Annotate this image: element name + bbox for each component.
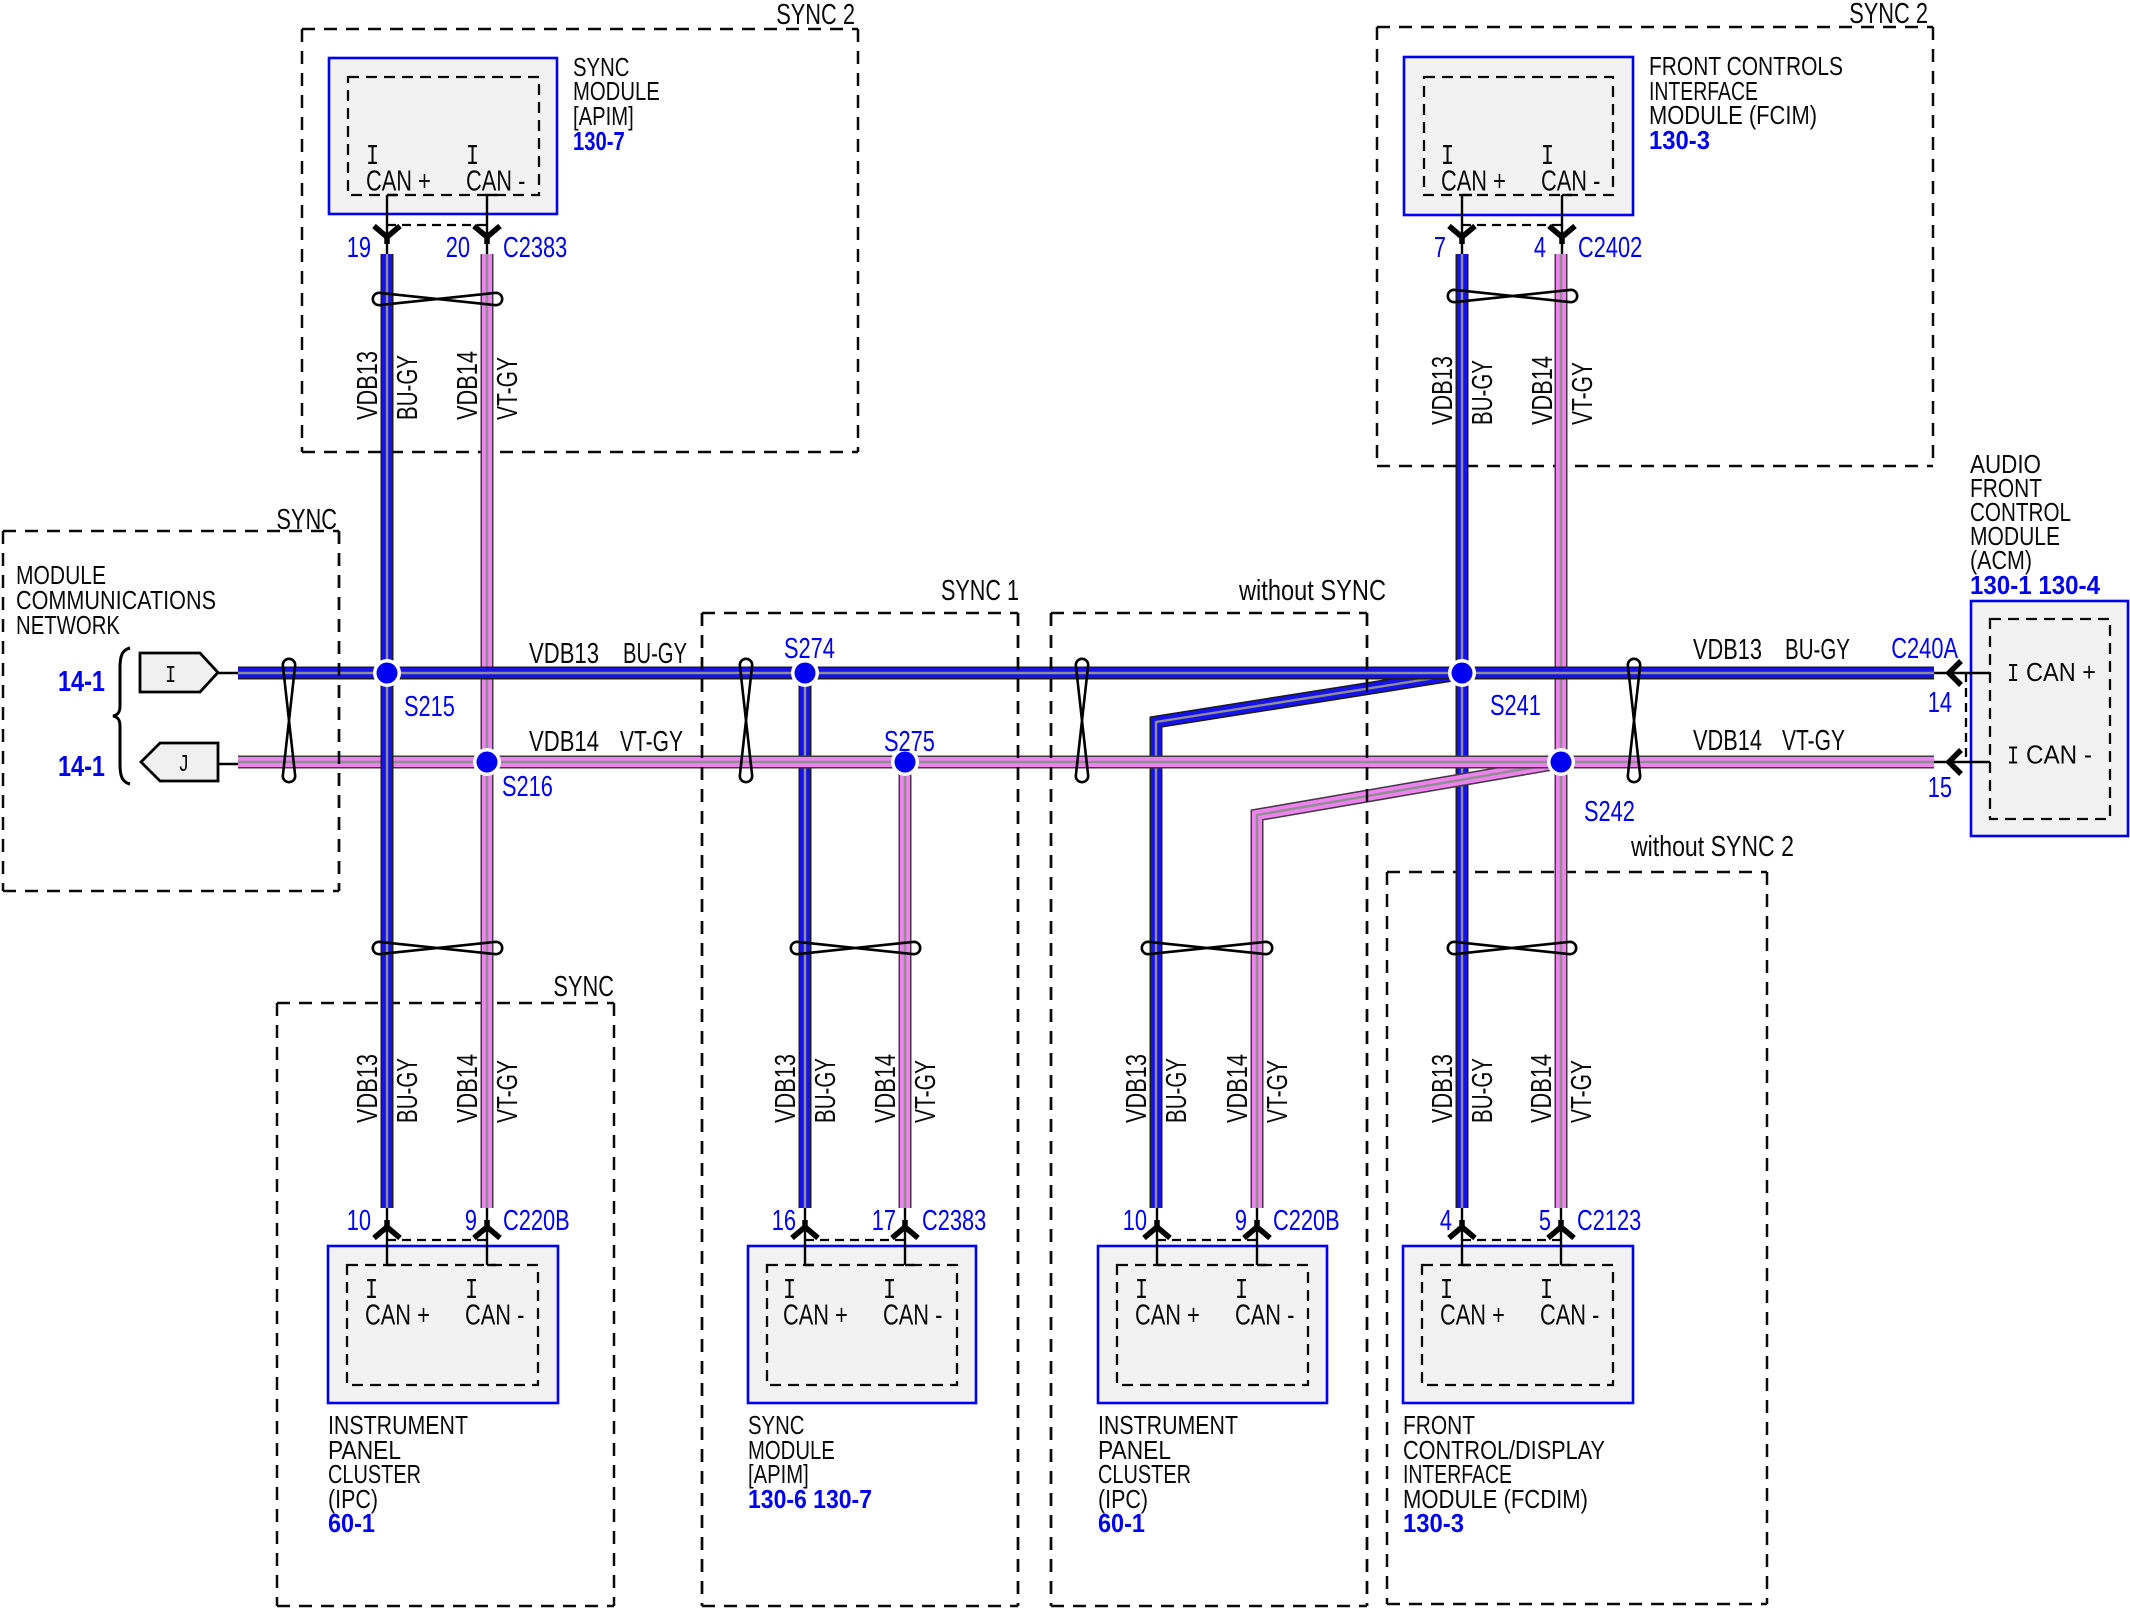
splice S275 (891, 748, 919, 776)
twisted pair FCDIM (1448, 942, 1576, 954)
svg-text:BU-GY: BU-GY (1467, 1058, 1499, 1123)
svg-text:VDB13: VDB13 (352, 1054, 384, 1123)
svg-text:SYNC: SYNC (553, 971, 614, 1003)
wire VDB14 VT-GY vertical FCIM-S242-FCDIM (1555, 254, 1568, 1208)
twisted pair IPC1 (373, 942, 502, 954)
module SYNC MODULE APIM (top) (329, 58, 557, 214)
module IPC (bottom left) (328, 1246, 558, 1403)
svg-text:60-1: 60-1 (328, 1508, 375, 1538)
dashed box SYNC 1 (702, 612, 1018, 615)
bus wire VDB13 BU-GY (I CAN +) (238, 667, 1934, 680)
svg-text:130-1 130-4: 130-1 130-4 (1970, 570, 2100, 600)
svg-text:CAN +: CAN + (1441, 166, 1506, 198)
svg-text:CAN +: CAN + (2026, 657, 2096, 687)
svg-text:I: I (2007, 742, 2019, 772)
splice S215 (373, 659, 401, 687)
svg-text:4: 4 (1534, 232, 1546, 264)
svg-text:VT-GY: VT-GY (1566, 1060, 1598, 1123)
svg-text:VDB14: VDB14 (1693, 725, 1762, 757)
pins APIM bottom (16/17 C2383) (804, 1208, 806, 1265)
wire VDB13 BU-GY vertical FCIM-S241-FCDIM (1456, 254, 1469, 1208)
wire VDB14 VT-GY vertical at S216 (481, 254, 494, 1208)
dashed box SYNC 2 (top left) (302, 28, 858, 31)
module FCIM (top right) (1404, 57, 1633, 215)
svg-text:20: 20 (446, 232, 470, 264)
svg-text:9: 9 (1235, 1205, 1247, 1237)
svg-text:VT-GY: VT-GY (1262, 1060, 1294, 1123)
svg-text:S216: S216 (502, 771, 553, 803)
svg-text:CAN +: CAN + (1440, 1300, 1505, 1332)
dashed box edge overlay (without SYNC left) (1050, 613, 1053, 1606)
svg-text:130-6 130-7: 130-6 130-7 (748, 1484, 872, 1514)
pins IPC1 (10/9 C220B) (386, 1208, 388, 1265)
wire tag J to bus (219, 763, 238, 766)
svg-text:SYNC 2: SYNC 2 (776, 0, 855, 31)
svg-text:VT-GY: VT-GY (1567, 362, 1599, 425)
svg-text:VDB13: VDB13 (529, 638, 599, 670)
svg-text:BU-GY: BU-GY (623, 638, 687, 670)
svg-text:without SYNC 2: without SYNC 2 (1630, 831, 1794, 863)
svg-text:VDB13: VDB13 (770, 1054, 802, 1123)
svg-text:VDB13: VDB13 (1693, 634, 1762, 666)
svg-text:VDB14: VDB14 (1222, 1054, 1254, 1123)
dashed box edge overlay (without SYNC right) (1366, 613, 1369, 1606)
dashed box edge overlay (SYNC 1 left) (701, 613, 704, 1606)
wire VDB13 BU-GY vertical below S274 (799, 673, 812, 1208)
svg-text:VDB14: VDB14 (870, 1054, 902, 1123)
svg-text:BU-GY: BU-GY (810, 1058, 842, 1123)
module SYNC MODULE APIM (bottom) (748, 1246, 976, 1403)
svg-text:S275: S275 (884, 726, 935, 758)
svg-text:I: I (2007, 659, 2019, 689)
wire tag I to bus (218, 672, 240, 675)
svg-text:BU-GY: BU-GY (392, 1058, 424, 1123)
svg-text:C2123: C2123 (1577, 1205, 1641, 1237)
splice S241 (1448, 659, 1476, 687)
svg-text:CAN -: CAN - (1541, 166, 1600, 198)
svg-text:10: 10 (347, 1205, 371, 1237)
svg-text:C2402: C2402 (1578, 232, 1642, 264)
svg-text:CAN -: CAN - (1235, 1300, 1294, 1332)
connector tag I (140, 653, 218, 692)
dashed box without SYNC 2 (1387, 871, 1767, 874)
splice S242 (1547, 748, 1575, 776)
svg-text:without SYNC: without SYNC (1238, 575, 1386, 607)
svg-text:14: 14 (1928, 687, 1952, 719)
dashed box SYNC (bottom left) (277, 1002, 614, 1005)
wire VDB14 VT-GY without-SYNC IPC with diagonal to S242 (1257, 763, 1559, 1208)
svg-text:S242: S242 (1584, 796, 1635, 828)
svg-text:SYNC 1: SYNC 1 (941, 575, 1019, 607)
wire VDB13 BU-GY without-SYNC IPC with diagonal to S241 (1156, 674, 1460, 1208)
svg-text:10: 10 (1123, 1205, 1147, 1237)
splice S274 (791, 659, 819, 687)
svg-text:C240A: C240A (1891, 633, 1958, 665)
svg-text:C2383: C2383 (503, 232, 567, 264)
svg-text:9: 9 (465, 1205, 477, 1237)
svg-text:S241: S241 (1490, 690, 1541, 722)
svg-text:CAN -: CAN - (883, 1300, 942, 1332)
svg-text:VDB14: VDB14 (452, 351, 484, 420)
module ACM (right) (1971, 601, 2128, 836)
svg-text:VT-GY: VT-GY (492, 1060, 524, 1123)
svg-text:130-7: 130-7 (573, 126, 625, 156)
svg-text:19: 19 (347, 232, 371, 264)
wire VDB14 VT-GY vertical below S275 (899, 762, 912, 1208)
svg-text:CAN +: CAN + (365, 1300, 430, 1332)
svg-text:CAN -: CAN - (2026, 740, 2092, 770)
svg-text:15: 15 (1928, 772, 1952, 804)
twisted pair bus right (1628, 659, 1640, 782)
dashed box SYNC (module communications network) (3, 530, 339, 533)
dashed box without SYNC (1051, 612, 1367, 615)
svg-text:VDB13: VDB13 (1121, 1054, 1153, 1123)
twisted pair APIM bottom (791, 942, 920, 954)
twisted pair APIM top (373, 293, 502, 305)
svg-text:130-3: 130-3 (1649, 125, 1710, 155)
dashed box SYNC 2 (top right) (1377, 26, 1933, 29)
svg-text:VDB14: VDB14 (452, 1054, 484, 1123)
svg-text:BU-GY: BU-GY (1785, 634, 1850, 666)
svg-text:SYNC: SYNC (276, 504, 337, 536)
pins FCIM (7/4 C2402) (1461, 195, 1463, 254)
brace for I and J rows (113, 648, 130, 784)
svg-text:CAN +: CAN + (783, 1300, 848, 1332)
dashed box edge overlay (SYNC 1 right) (1017, 613, 1020, 1606)
svg-text:CAN -: CAN - (1540, 1300, 1599, 1332)
twisted pair bus without-SYNC (1076, 659, 1088, 782)
pins IPC2 (10/9 C220B) (1156, 1208, 1158, 1265)
splice S216 (473, 748, 501, 776)
svg-text:SYNC 2: SYNC 2 (1849, 0, 1928, 30)
svg-text:VDB13: VDB13 (352, 351, 384, 420)
svg-text:VDB14: VDB14 (1527, 356, 1559, 425)
svg-text:BU-GY: BU-GY (1467, 360, 1499, 425)
svg-text:S215: S215 (404, 691, 455, 723)
svg-text:I: I (165, 663, 176, 690)
svg-text:VDB13: VDB13 (1427, 1054, 1459, 1123)
svg-text:CAN +: CAN + (1135, 1300, 1200, 1332)
svg-text:BU-GY: BU-GY (1161, 1058, 1193, 1123)
svg-text:NETWORK: NETWORK (16, 610, 121, 640)
svg-text:CAN +: CAN + (366, 166, 431, 198)
svg-text:VDB14: VDB14 (529, 726, 599, 758)
svg-text:VT-GY: VT-GY (492, 357, 524, 420)
pins SYNC MODULE APIM top (19/20 C2383) (386, 195, 388, 254)
svg-text:4: 4 (1440, 1205, 1452, 1237)
svg-text:7: 7 (1434, 232, 1446, 264)
svg-text:VT-GY: VT-GY (1782, 725, 1845, 757)
svg-text:VDB13: VDB13 (1427, 356, 1459, 425)
svg-text:16: 16 (772, 1205, 796, 1237)
svg-text:5: 5 (1539, 1205, 1551, 1237)
svg-text:14-1: 14-1 (58, 666, 105, 698)
svg-text:C220B: C220B (1273, 1205, 1340, 1237)
svg-text:J: J (178, 752, 189, 779)
svg-text:CAN -: CAN - (466, 166, 525, 198)
svg-text:CAN -: CAN - (465, 1300, 524, 1332)
svg-text:60-1: 60-1 (1098, 1508, 1145, 1538)
svg-text:17: 17 (872, 1205, 896, 1237)
svg-text:VT-GY: VT-GY (620, 726, 683, 758)
module FCDIM (bottom right) (1403, 1246, 1633, 1403)
svg-text:130-3: 130-3 (1403, 1508, 1464, 1538)
svg-text:VT-GY: VT-GY (910, 1060, 942, 1123)
twisted pair bus left (283, 659, 295, 782)
dashed box edge overlay (SYNC right) (338, 531, 341, 891)
svg-text:14-1: 14-1 (58, 751, 105, 783)
pins FCDIM (4/5 C2123) (1461, 1208, 1463, 1265)
pins ACM (14/15 C240A) (1934, 672, 1990, 674)
wire VDB13 BU-GY vertical through S215 (381, 254, 394, 1208)
twisted pair bus SYNC1 (740, 659, 752, 782)
svg-text:BU-GY: BU-GY (392, 355, 424, 420)
svg-text:VDB14: VDB14 (1526, 1054, 1558, 1123)
twisted pair FCIM (1448, 290, 1577, 302)
bus wire VDB14 VT-GY (I CAN -) (238, 756, 1934, 769)
connector tag J (141, 743, 218, 781)
svg-text:C220B: C220B (503, 1205, 570, 1237)
module IPC (bottom middle) (1098, 1246, 1327, 1403)
twisted pair IPC2 (1142, 942, 1272, 954)
svg-text:S274: S274 (784, 633, 835, 665)
svg-text:C2383: C2383 (922, 1205, 986, 1237)
